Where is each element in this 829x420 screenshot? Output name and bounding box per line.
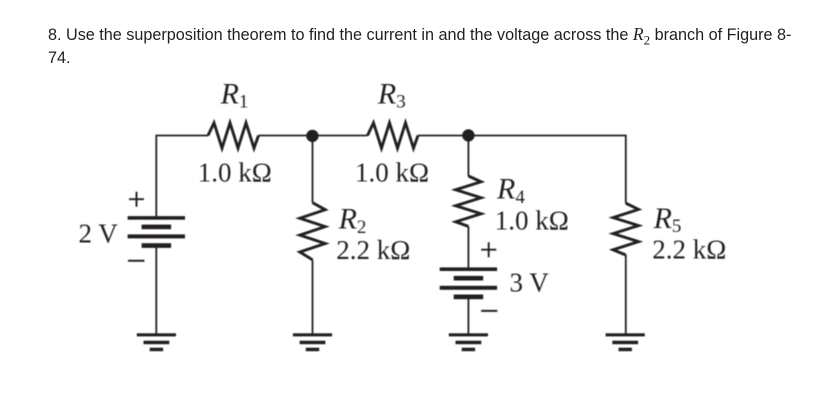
minus sign (2V battery) (128, 260, 145, 262)
svg-text:1.0 kΩ: 1.0 kΩ (355, 157, 429, 187)
wire top left (battery down-corner to R1) (156, 136, 208, 217)
wire R2 branch upper (node A down to R2) (312, 136, 314, 203)
plus sign (3V battery) (481, 242, 496, 257)
svg-text:R4: R4 (496, 173, 525, 208)
svg-text:2.2 kΩ: 2.2 kΩ (336, 235, 410, 265)
svg-text:3 V: 3 V (510, 268, 550, 298)
svg-text:R1: R1 (220, 78, 249, 113)
svg-text:R2: R2 (338, 203, 367, 238)
ground (3V branch) (449, 333, 488, 351)
wire R2 branch lower (R2 to ground) (312, 260, 314, 334)
wire R5 branch lower (R5 to ground) (625, 255, 627, 333)
wire top middle (R1 to R3 through node A) (259, 135, 368, 137)
node B junction dot (462, 129, 474, 141)
resistor R2 (300, 203, 325, 260)
svg-text:1.0 kΩ: 1.0 kΩ (495, 206, 569, 236)
ground (left branch) (137, 333, 176, 351)
wire top right (R3 to corner, down to R5) (418, 136, 626, 204)
wire R4 to 3V battery (467, 226, 469, 267)
ground (R5 branch) (606, 333, 645, 351)
svg-text:1.0 kΩ: 1.0 kΩ (198, 157, 272, 187)
plus sign (2V battery) (129, 192, 144, 207)
ground (R2 branch) (293, 333, 332, 351)
wire 3V battery to ground (467, 299, 469, 334)
resistor R3 (368, 123, 419, 148)
battery V1 2V (128, 216, 185, 248)
svg-text:R5: R5 (653, 202, 682, 237)
resistor R4 (456, 176, 481, 226)
wire R4 branch upper (node B down to R4) (467, 136, 469, 177)
node A junction dot (306, 130, 318, 142)
svg-text:2.2 kΩ: 2.2 kΩ (652, 235, 726, 265)
svg-text:2 V: 2 V (79, 219, 119, 249)
resistor R5 (613, 203, 638, 255)
battery V2 3V (440, 267, 497, 299)
problem statement text (48, 23, 808, 71)
minus sign (3V battery) (481, 310, 497, 312)
resistor R1 (208, 123, 259, 148)
wire left branch lower (2V battery to ground) (155, 248, 157, 334)
svg-text:R3: R3 (377, 78, 406, 113)
